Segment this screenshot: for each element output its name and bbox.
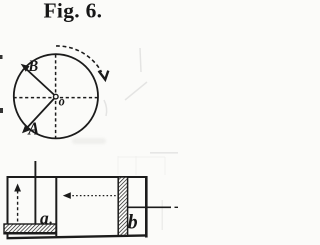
paper background bbox=[0, 0, 181, 245]
upward dashed arrow bbox=[17, 188, 19, 222]
cylinder box top edge bbox=[7, 176, 148, 178]
bleed-through smudge right of circle bbox=[104, 48, 147, 116]
valve bar a (hatched) bbox=[4, 224, 57, 234]
smudge under circle bbox=[72, 138, 106, 144]
compartment divider bbox=[55, 177, 57, 236]
up arrowhead bbox=[14, 184, 21, 192]
piston rod bbox=[128, 206, 172, 208]
crank radius OA bbox=[25, 97, 57, 131]
flywheel circle bbox=[14, 54, 98, 138]
faint bleed line right of box bbox=[162, 200, 164, 230]
hub ring at center O bbox=[54, 94, 59, 99]
rod end dash bbox=[175, 206, 179, 208]
cylinder box bottom edge bbox=[7, 235, 148, 238]
period after label a bbox=[50, 222, 52, 224]
arrowhead A bbox=[22, 125, 31, 134]
svg-text:o: o bbox=[59, 93, 66, 109]
arrowhead B bbox=[21, 64, 30, 72]
left arrowhead bbox=[63, 192, 71, 199]
svg-text:a: a bbox=[40, 208, 49, 228]
vertical dashed diameter bbox=[55, 55, 57, 139]
rotation dashed arc arrow bbox=[56, 46, 102, 72]
piston (hatched) bbox=[118, 177, 127, 236]
arc arrowhead bbox=[99, 71, 109, 80]
steam pipe line above box bbox=[34, 161, 36, 225]
faint dotted row lower right bbox=[150, 152, 178, 154]
faint ghost lines above box bbox=[118, 156, 165, 175]
cylinder box right edge bbox=[145, 176, 148, 238]
horizontal dashed diameter bbox=[14, 97, 99, 99]
crank radius OB bbox=[24, 67, 57, 97]
cylinder box left edge bbox=[7, 176, 9, 239]
svg-text:b: b bbox=[128, 211, 138, 234]
svg-text:A: A bbox=[27, 119, 39, 138]
svg-text:Fig. 6.: Fig. 6. bbox=[44, 0, 103, 22]
leftward dotted arrow bbox=[67, 195, 120, 197]
left margin specks bbox=[0, 55, 3, 59]
svg-text:B: B bbox=[27, 57, 38, 75]
